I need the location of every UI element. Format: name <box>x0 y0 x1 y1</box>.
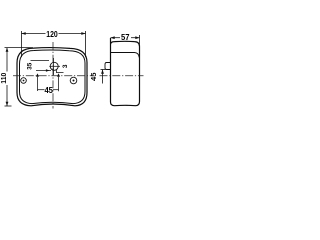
svg-text:35: 35 <box>28 62 34 70</box>
svg-text:45: 45 <box>44 86 53 95</box>
svg-text:57: 57 <box>121 33 130 42</box>
svg-text:3: 3 <box>62 64 69 68</box>
svg-text:110: 110 <box>1 73 8 84</box>
svg-text:45: 45 <box>91 72 98 81</box>
svg-text:120: 120 <box>46 30 58 39</box>
